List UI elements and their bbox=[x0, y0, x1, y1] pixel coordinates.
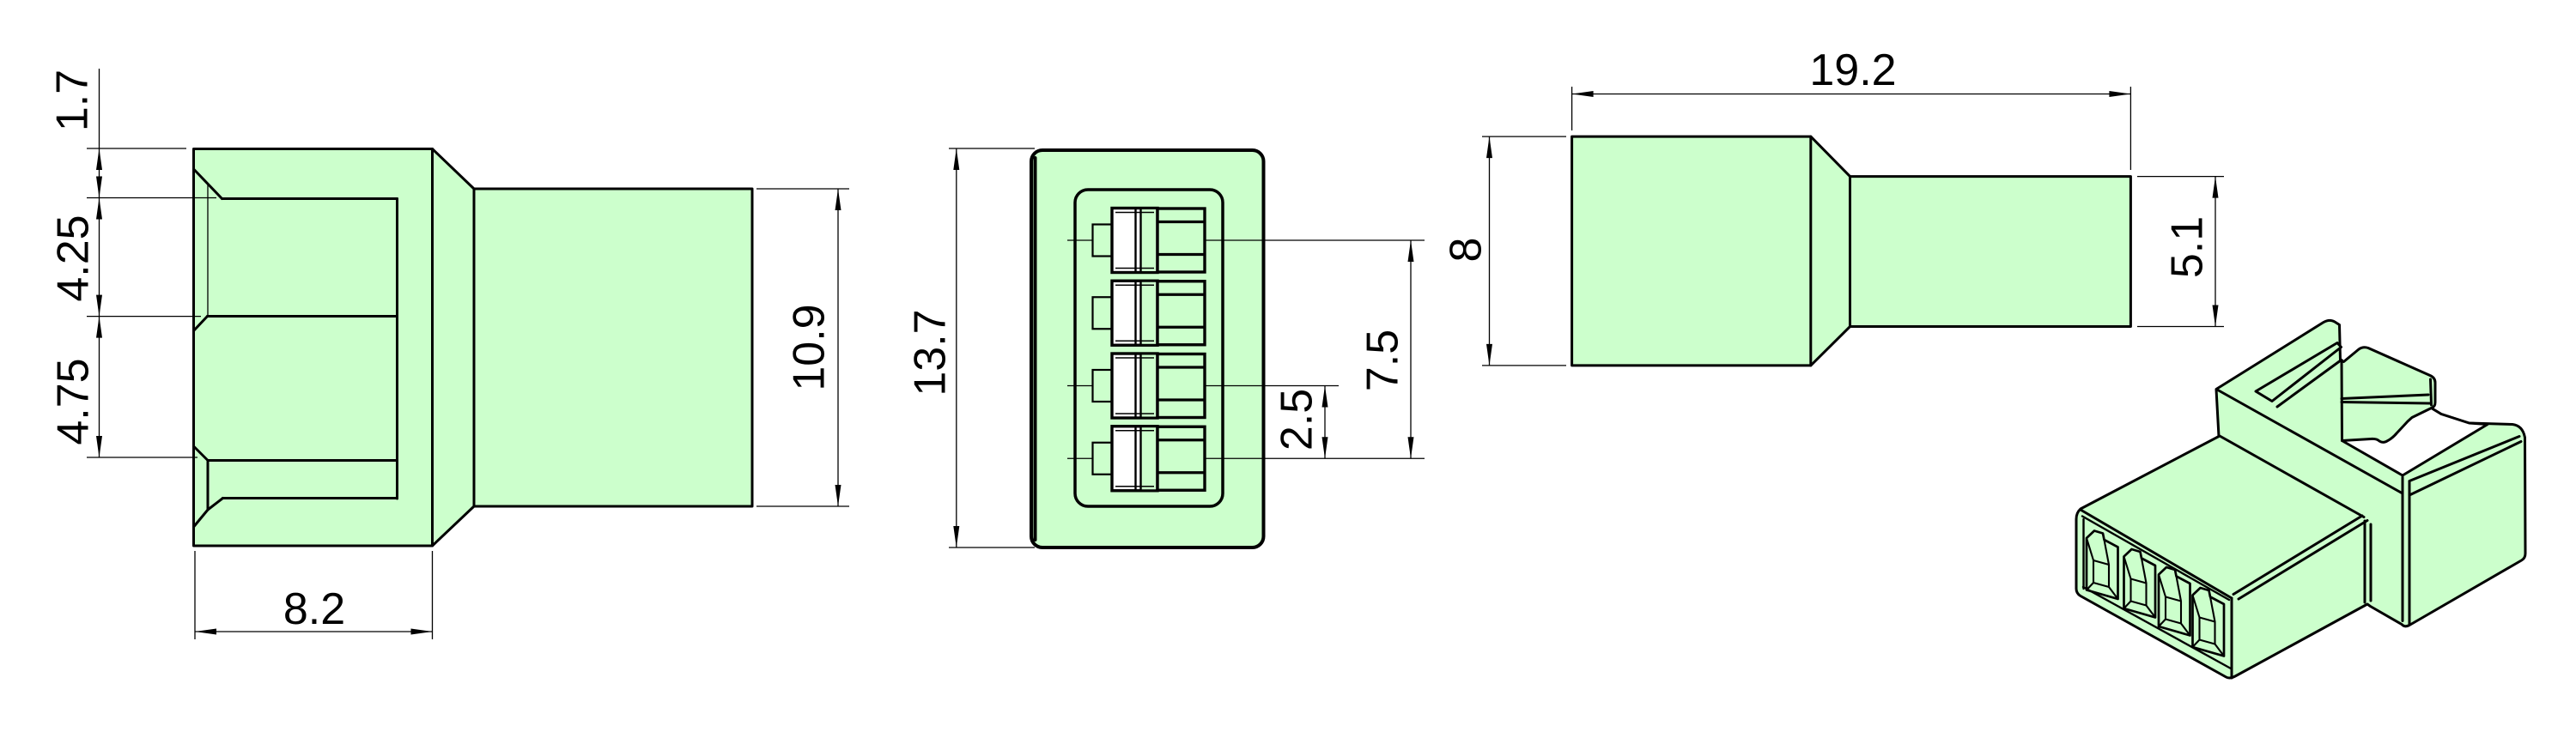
arrow down at 533 bbox=[96, 436, 102, 457]
iso tower wall base edge bbox=[2220, 436, 2364, 517]
iso rear box front edge 1 bbox=[2402, 477, 2404, 621]
arrow right at 503.5 bbox=[411, 629, 433, 635]
extension line y=230.5 bbox=[87, 197, 216, 199]
pin leader line 3 bbox=[1067, 385, 1339, 387]
dim chain line 1.7/4.25/4.75 bbox=[99, 69, 100, 457]
terminal pin 4 bbox=[1093, 426, 1206, 491]
arrow up at 368.6 bbox=[96, 317, 102, 338]
dim 5.1 line bbox=[2215, 177, 2216, 327]
cavity lower line bbox=[208, 459, 398, 462]
iso main box top-right chamfer line 1 bbox=[2233, 516, 2362, 595]
top view front/taper junction bbox=[1809, 136, 1812, 366]
arrow up 5.1 bbox=[2213, 177, 2219, 198]
iso pin cavity 3 bbox=[2159, 567, 2190, 636]
arrow down 2.5 bbox=[1322, 437, 1328, 458]
svg-text:10.9: 10.9 bbox=[785, 304, 835, 390]
iso rear box top chamfer line 2 bbox=[2409, 442, 2521, 496]
iso latch gap (white opening) bbox=[2342, 408, 2488, 476]
svg-text:4.75: 4.75 bbox=[49, 358, 99, 445]
iso main box top-right chamfer line 2 bbox=[2239, 521, 2367, 600]
dim 19.2 line bbox=[1572, 94, 2131, 95]
iso latch arm front band upper edge bbox=[2342, 395, 2428, 399]
dim 13.7 extension bottom bbox=[949, 547, 1035, 548]
arrow up at 173 bbox=[96, 148, 102, 170]
dim 5.1 extension top bbox=[2137, 176, 2224, 178]
arrow left 19.2 bbox=[1572, 91, 1594, 97]
top view taper/rear junction bbox=[1849, 177, 1851, 327]
arrow down at 590 bbox=[835, 485, 841, 506]
dim 5.1 extension bottom bbox=[2137, 326, 2224, 328]
front view thick left edge bbox=[1034, 158, 1037, 540]
iso body silhouette bbox=[2076, 320, 2525, 678]
dim 13.7 extension top bbox=[949, 148, 1035, 149]
svg-text:4.25: 4.25 bbox=[49, 215, 99, 301]
iso front face right edge bbox=[2231, 598, 2233, 678]
chamfer bottom diag bbox=[208, 499, 223, 511]
extension line y=533 bbox=[87, 457, 197, 458]
iso tower right end edge bbox=[2341, 360, 2344, 441]
arrow down 5.1 bbox=[2213, 306, 2219, 327]
cavity interior thin edge bbox=[207, 185, 209, 317]
dim 10.9 extension bottom bbox=[756, 505, 849, 507]
arrow down at 230.5 bbox=[96, 177, 102, 198]
extension line y=368.6 bbox=[87, 316, 201, 318]
iso front face top chamfer line bbox=[2082, 517, 2229, 601]
extension line y=173 bbox=[87, 148, 186, 149]
dim 8.2 extension right bbox=[432, 551, 434, 639]
cavity bottom line bbox=[223, 497, 398, 499]
dim 8 extension top bbox=[1482, 136, 1566, 137]
front view outer body bbox=[1031, 150, 1264, 547]
arrow down 8 bbox=[1486, 344, 1492, 366]
svg-text:13.7: 13.7 bbox=[906, 309, 956, 396]
dim 2.5 line bbox=[1324, 386, 1326, 459]
chamfer top-left bbox=[194, 169, 222, 199]
front view inner cavity bbox=[1075, 190, 1223, 506]
side view body outline bbox=[194, 149, 753, 547]
terminal pin 3 bbox=[1093, 354, 1206, 418]
arrow up 7.5 bbox=[1408, 240, 1414, 262]
arrow right 19.2 bbox=[2109, 91, 2130, 97]
arrow up 8 bbox=[1486, 136, 1492, 158]
svg-text:7.5: 7.5 bbox=[1358, 330, 1408, 391]
cavity top line bbox=[222, 197, 398, 200]
iso pin cavity 4 bbox=[2193, 588, 2225, 656]
svg-text:8: 8 bbox=[1442, 238, 1492, 263]
dim 7.5 line bbox=[1410, 240, 1412, 458]
dim 10.9 extension top bbox=[756, 188, 849, 190]
terminal pin 1 bbox=[1093, 209, 1206, 273]
side view taper/rear junction line bbox=[473, 189, 476, 506]
iso rear box top chamfer line bbox=[2409, 437, 2519, 481]
svg-text:8.2: 8.2 bbox=[283, 584, 345, 634]
dim 8.2 extension left bbox=[194, 551, 196, 639]
arrow up 2.5 bbox=[1322, 386, 1328, 408]
arrow up at 220 bbox=[835, 189, 841, 210]
dim 19.2 extension right bbox=[2129, 87, 2131, 170]
cavity right edge bbox=[396, 199, 398, 499]
iso main box rear edge 1 bbox=[2364, 521, 2366, 602]
iso latch arm end cap edge bbox=[2431, 379, 2432, 405]
arrow down 13.7 bbox=[953, 526, 959, 547]
dim 19.2 extension left bbox=[1571, 87, 1573, 130]
dim 13.7 line bbox=[956, 148, 957, 547]
arrow up 13.7 bbox=[953, 148, 959, 170]
cavity middle line bbox=[208, 315, 398, 318]
iso front face top edge bbox=[2081, 510, 2232, 598]
pin leader line 4 bbox=[1067, 457, 1425, 459]
chamfer bottom-left lower bbox=[194, 510, 209, 527]
iso pin cavity 1 bbox=[2087, 531, 2118, 600]
svg-text:2.5: 2.5 bbox=[1273, 389, 1322, 451]
iso main box rear edge 2 bbox=[2370, 524, 2372, 601]
svg-text:19.2: 19.2 bbox=[1809, 45, 1896, 95]
iso ridge base edge bbox=[2217, 390, 2403, 493]
iso tower top slot bbox=[2256, 343, 2342, 402]
arrow down 7.5 bbox=[1408, 437, 1414, 458]
chamfer mid-left bbox=[194, 317, 208, 331]
terminal pin 2 bbox=[1093, 281, 1206, 345]
iso rear box front edge 2 bbox=[2409, 482, 2411, 625]
iso pin cavity 2 bbox=[2124, 549, 2156, 618]
iso tower wall top edge bbox=[2277, 360, 2342, 408]
dim 8.2 line bbox=[195, 631, 433, 632]
arrow up at 230.5 bbox=[96, 198, 102, 220]
arrow down at 368.6 bbox=[96, 295, 102, 317]
svg-text:1.7: 1.7 bbox=[48, 70, 98, 131]
top view outline bbox=[1572, 136, 2131, 366]
iso front face left chamfer line bbox=[2082, 519, 2084, 589]
iso latch arm front band lower edge bbox=[2342, 402, 2430, 404]
svg-text:5.1: 5.1 bbox=[2163, 216, 2213, 278]
iso front face bottom chamfer line bbox=[2083, 587, 2231, 668]
pin leader line 1 bbox=[1067, 239, 1425, 241]
arrow left at 227 bbox=[195, 629, 216, 635]
side view front/rear junction line bbox=[431, 149, 434, 547]
dim 8 extension bottom bbox=[1482, 365, 1566, 366]
chamfer lower-left bbox=[194, 446, 209, 461]
dim 8 line bbox=[1489, 136, 1491, 366]
cavity bottom wall vertical bbox=[207, 461, 210, 511]
dim 10.9 line bbox=[837, 189, 839, 506]
